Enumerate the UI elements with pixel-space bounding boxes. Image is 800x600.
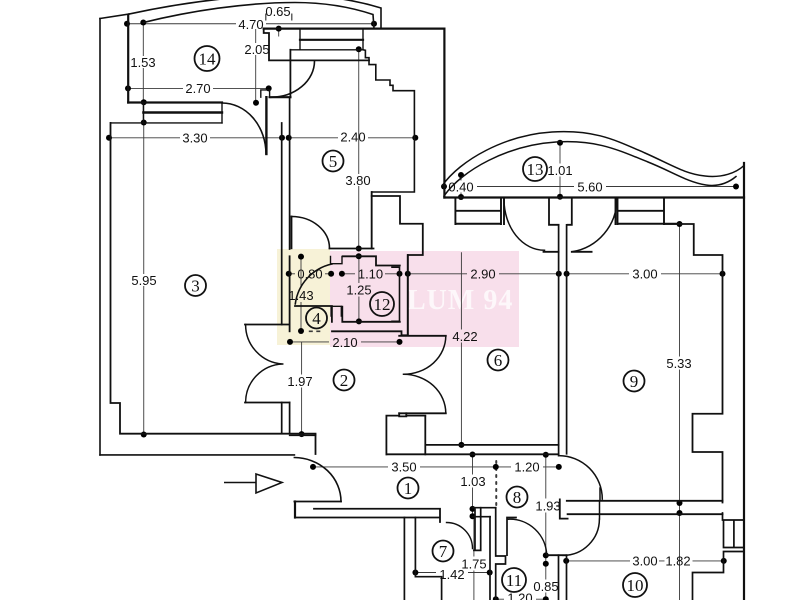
band rooms 8/10: [560, 499, 723, 518]
svg-text:4: 4: [312, 309, 321, 328]
room6 west+bottom: [425, 416, 558, 454]
svg-text:1.10: 1.10: [358, 267, 383, 282]
divider rooms 3/5 right line: [289, 97, 291, 249]
corridor bottom band: [295, 509, 440, 522]
room5 door arc: [292, 217, 330, 249]
entry door arc: [294, 458, 341, 502]
wall cap y=555: [547, 554, 566, 556]
room7 right wall: [474, 508, 490, 600]
svg-text:4.70: 4.70: [238, 17, 263, 32]
room9 top-right closet: [664, 224, 723, 503]
divider 3/2 below door: [282, 403, 290, 434]
right wall of stair block: [443, 29, 445, 198]
highlight yellow room 4: [277, 249, 330, 345]
svg-text:2.10: 2.10: [332, 335, 357, 350]
svg-text:4.22: 4.22: [452, 329, 477, 344]
svg-text:0.80: 0.80: [297, 267, 322, 282]
svg-text:2.40: 2.40: [340, 130, 365, 145]
svg-text:5: 5: [329, 152, 338, 171]
svg-text:0.40: 0.40: [448, 180, 473, 195]
svg-text:1.43: 1.43: [288, 288, 313, 303]
svg-text:5.33: 5.33: [666, 356, 691, 371]
notch box: [261, 90, 270, 97]
corridor band right bit: [473, 508, 496, 549]
room4 SE box: [331, 306, 341, 316]
svg-text:1.01: 1.01: [547, 163, 572, 178]
svg-text:2.90: 2.90: [470, 267, 495, 282]
svg-text:12: 12: [374, 295, 391, 314]
room4 bottom wall: [295, 306, 332, 322]
room5 door leaf: [291, 217, 293, 249]
room5 inner closet: [372, 196, 423, 334]
svg-text:3.50: 3.50: [391, 460, 416, 475]
wall under balcony 14 (room 3 top): [128, 101, 222, 103]
balcony door arc A: [504, 200, 545, 251]
balcony 13 bottom wall: [444, 196, 744, 198]
room number circles: [185, 46, 647, 597]
corridor end arc: [559, 456, 603, 500]
svg-text:5.60: 5.60: [577, 180, 602, 195]
balcony 14 left wall: [127, 15, 129, 103]
room5 right wall: [371, 192, 373, 249]
room2 bottom band second line: [290, 434, 316, 436]
room 3 window sill: [111, 122, 222, 124]
svg-text:14: 14: [199, 50, 217, 69]
svg-text:10: 10: [627, 576, 644, 595]
room10 door: [563, 502, 600, 555]
svg-text:5.95: 5.95: [131, 273, 156, 288]
svg-text:1.03: 1.03: [460, 474, 485, 489]
room12 bottom band: [332, 307, 408, 336]
wall chunk between doors: [549, 198, 572, 225]
balcony window A: [455, 198, 504, 225]
french door 2/6 arcs: [404, 336, 446, 414]
svg-text:1.93: 1.93: [535, 499, 560, 514]
room 3 window glazing: [143, 111, 222, 113]
room12 right wall w caps: [392, 267, 400, 321]
balcony 13 outer curve: [442, 132, 744, 186]
balcony 5 window jambs: [300, 29, 363, 50]
room4 door arc: [295, 264, 332, 304]
svg-text:6: 6: [494, 351, 503, 370]
caps at y=252: [544, 251, 592, 253]
room 3 window jambs: [143, 103, 222, 123]
room4 left wall: [289, 256, 291, 331]
divider rooms 3/5 left line: [281, 123, 283, 325]
balcony door arc B: [572, 199, 617, 252]
dimension lines: [109, 14, 736, 600]
svg-text:0.85: 0.85: [533, 579, 558, 594]
svg-text:3.80: 3.80: [345, 173, 370, 188]
room11 right wall pair: [559, 555, 567, 600]
svg-text:1.53: 1.53: [130, 55, 155, 70]
svg-text:13: 13: [527, 160, 544, 179]
svg-text:1.42: 1.42: [439, 567, 464, 582]
svg-text:3.30: 3.30: [182, 131, 207, 146]
notch below band A: [331, 257, 343, 264]
svg-text:1.75: 1.75: [461, 557, 486, 572]
highlight pink room 12: [330, 251, 519, 347]
svg-text:0.65: 0.65: [265, 4, 290, 19]
divider 12/6: [407, 255, 409, 334]
svg-text:2.05: 2.05: [244, 42, 269, 57]
svg-text:1: 1: [404, 479, 413, 498]
svg-text:1.20: 1.20: [514, 460, 539, 475]
svg-text:9: 9: [630, 372, 639, 391]
room numbers: [191, 50, 643, 596]
corridor top wall: [386, 453, 558, 455]
svg-text:2: 2: [340, 371, 349, 390]
entry side wall: [294, 502, 296, 518]
svg-text:2.70: 2.70: [185, 81, 210, 96]
svg-text:1.82: 1.82: [665, 554, 690, 569]
room11 top stub: [507, 518, 516, 556]
top-left outer slant: [100, 14, 129, 19]
outer bottom wall: [100, 454, 294, 456]
room10 top wall piece: [599, 488, 601, 499]
balcony 14 inner curve: [143, 3, 374, 29]
svg-text:3.00: 3.00: [632, 267, 657, 282]
dimension labels: [130, 4, 691, 600]
svg-text:8: 8: [513, 488, 522, 507]
french door 2/6 leaves: [399, 336, 446, 414]
svg-text:LUM 94: LUM 94: [407, 285, 513, 316]
wall y=97: [270, 96, 291, 98]
balcony 13 inner curve: [444, 142, 736, 196]
entry arrow: [224, 474, 282, 493]
room7 left + bottom: [404, 518, 441, 600]
balcony 14 outer curve: [129, 0, 381, 29]
wall y=415.6 to room6: [406, 415, 425, 417]
svg-text:1.97: 1.97: [287, 374, 312, 389]
stair steps: [363, 50, 414, 249]
french door 3/2 leaves: [245, 325, 290, 403]
left outer wall: [99, 19, 101, 455]
divider 6/9: [559, 225, 567, 456]
balcony window B: [616, 198, 680, 225]
balcony 5 window glazing: [300, 39, 363, 41]
room10 east side: [693, 513, 745, 600]
step to outer bottom: [315, 435, 317, 455]
svg-text:11: 11: [506, 571, 522, 590]
room2 SE wall: [386, 413, 406, 454]
room 3 left wall + bottom: [111, 123, 316, 434]
right outer wall: [743, 163, 745, 600]
french door 3/2 arcs: [246, 325, 283, 403]
svg-text:3: 3: [191, 277, 200, 296]
wall column right of room3 door: [265, 97, 267, 154]
top wall y=28.6 full: [264, 28, 445, 30]
room12 top boundary: [330, 249, 400, 266]
bar + room11 left wall pair: [496, 508, 506, 600]
room 3 door arc: [222, 103, 266, 154]
svg-text:3.00: 3.00: [632, 554, 657, 569]
door arc room 14: [271, 61, 315, 97]
svg-text:7: 7: [439, 542, 448, 561]
room11 door arc: [508, 519, 546, 555]
dimension end dots: [106, 20, 739, 600]
room7 door arc: [447, 523, 473, 549]
wall chunk left of window 14: [264, 29, 369, 98]
svg-text:1.25: 1.25: [346, 283, 371, 298]
